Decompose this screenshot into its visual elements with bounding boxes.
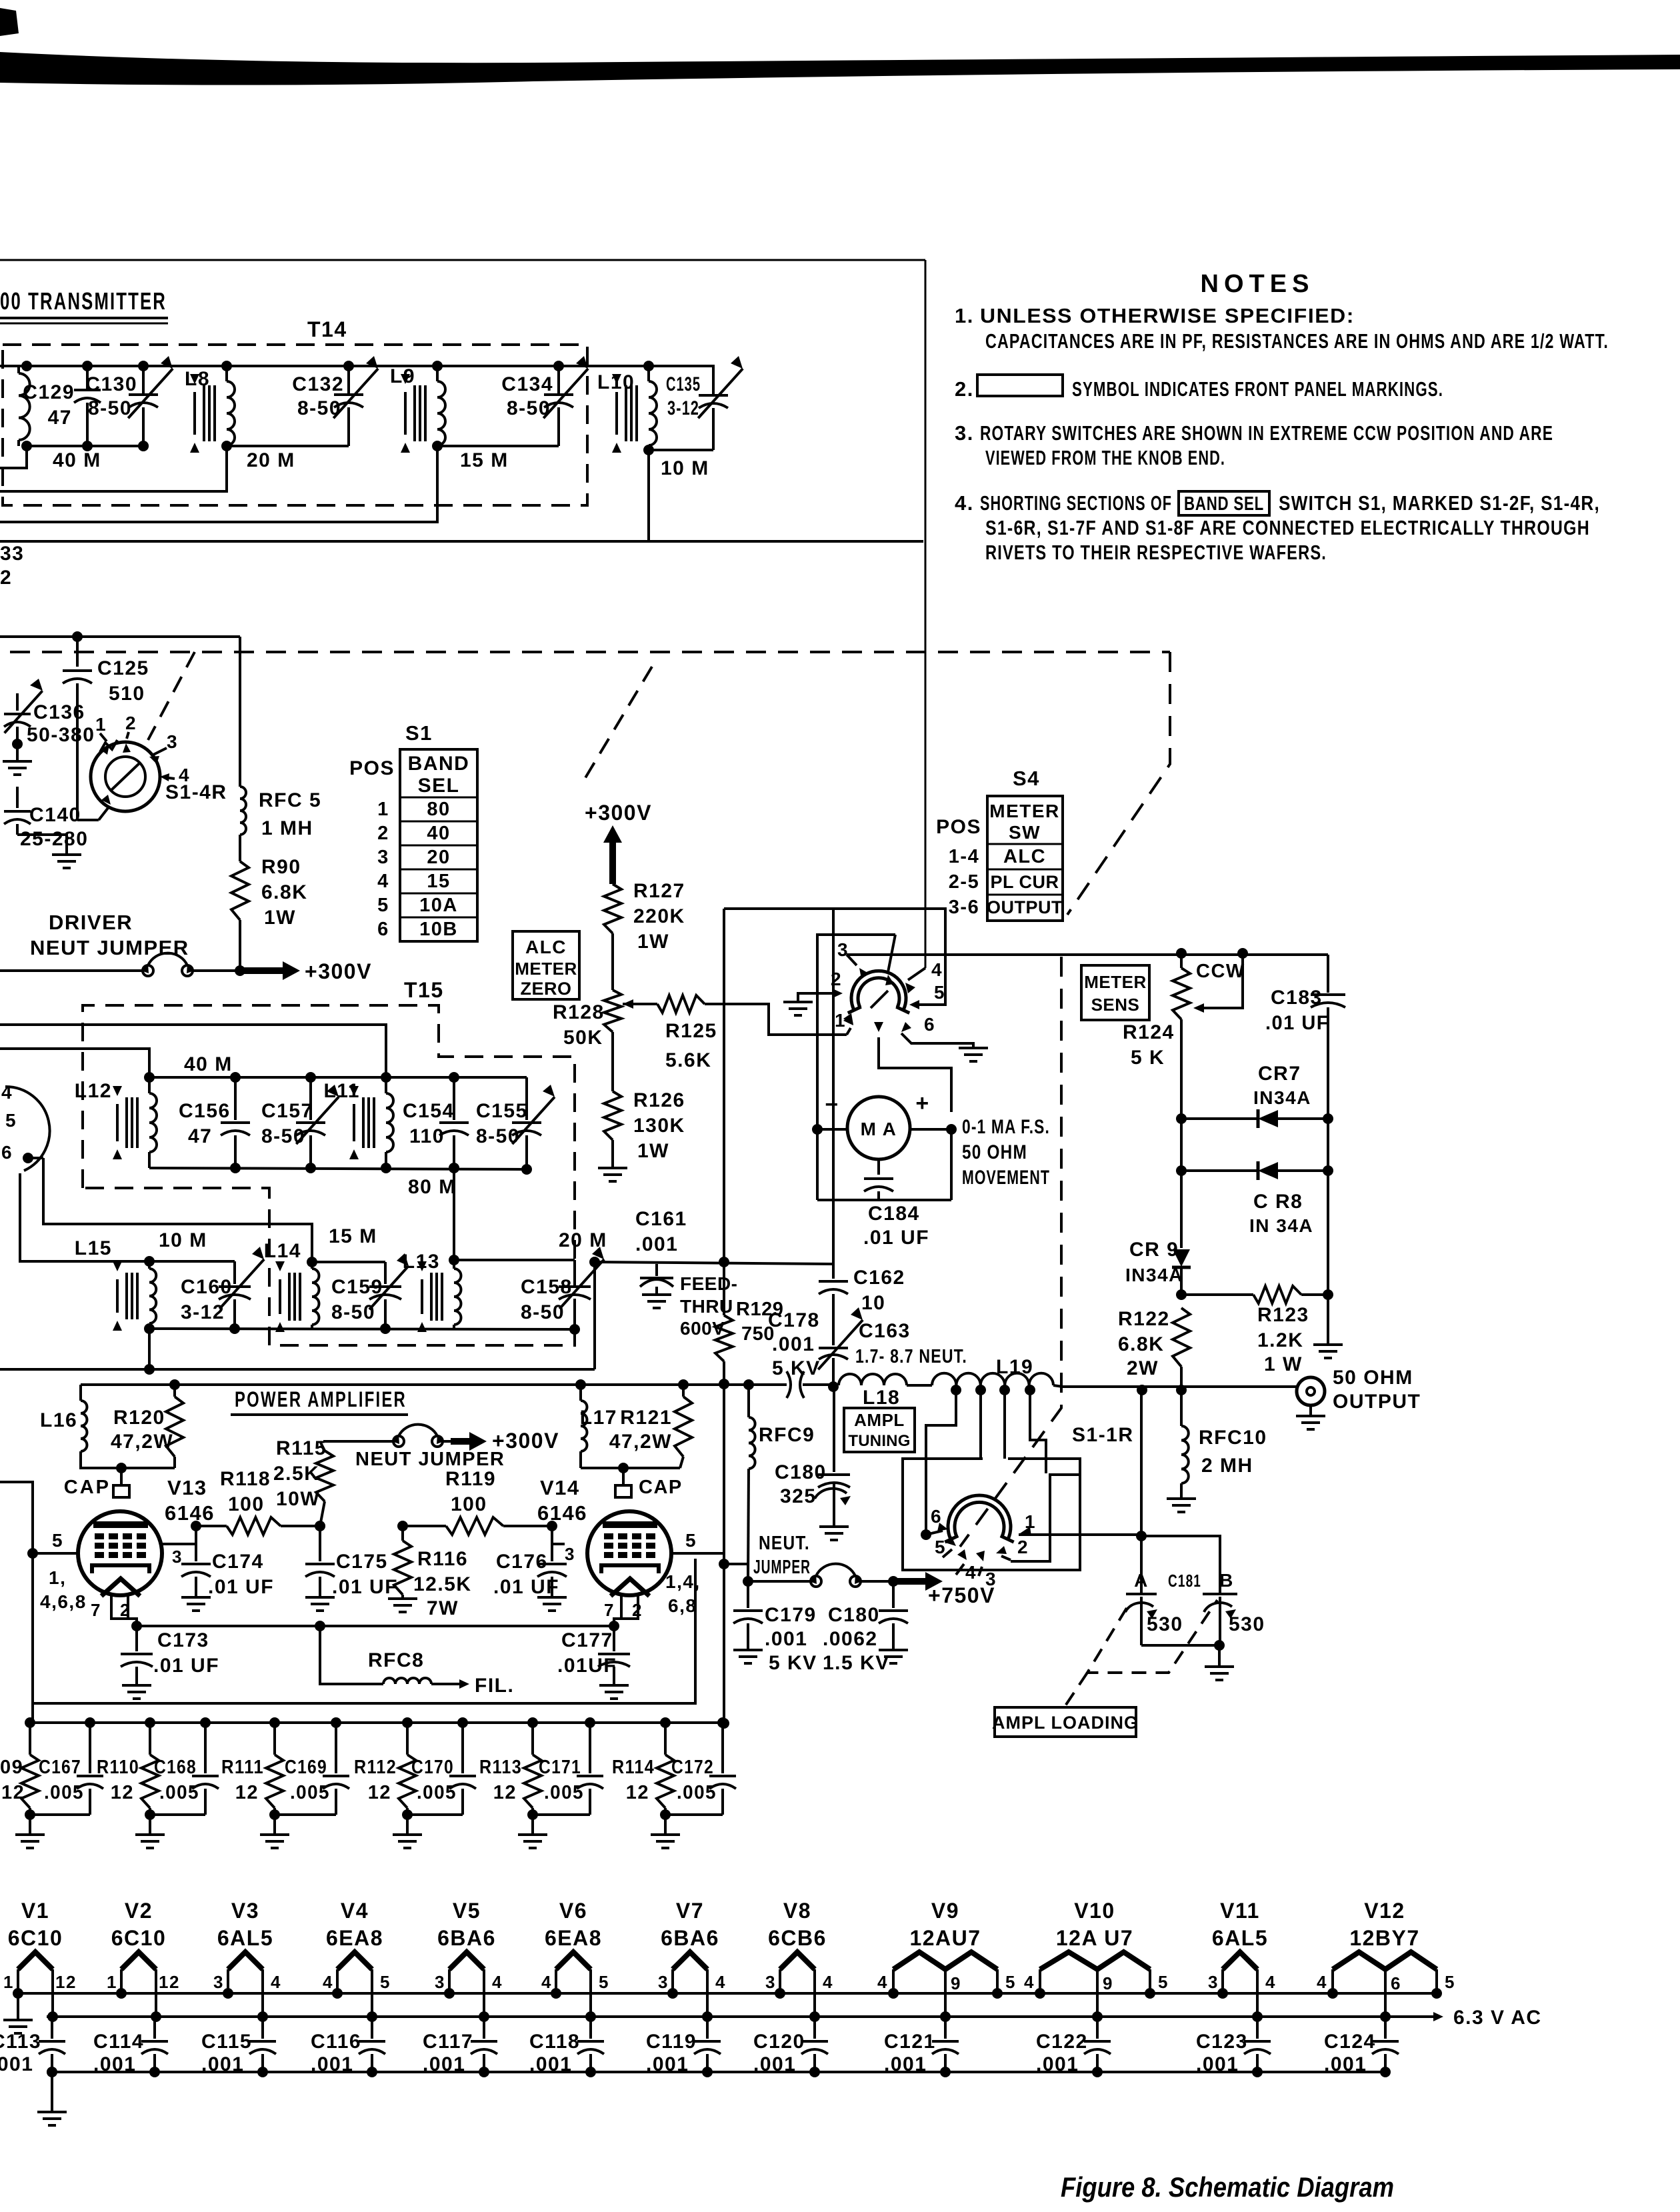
svg-text:40: 40 <box>427 823 450 844</box>
svg-text:L16: L16 <box>40 1409 77 1431</box>
svg-text:2-5: 2-5 <box>949 871 979 893</box>
svg-text:1W: 1W <box>264 907 296 929</box>
svg-text:12A U7: 12A U7 <box>1056 1926 1133 1950</box>
svg-text:C120: C120 <box>753 2031 805 2053</box>
wire into L11 <box>0 1025 386 1077</box>
capacitor C176 <box>547 1521 557 1531</box>
svg-text:V13: V13 <box>167 1476 207 1499</box>
svg-text:.001: .001 <box>1196 2053 1239 2075</box>
wire rotor pos3 arrow <box>979 1567 982 1576</box>
capacitor C118 <box>589 2017 592 2039</box>
capacitor C167 <box>85 1717 95 1728</box>
resistor R113 <box>527 1717 538 1728</box>
wire 15M top rail <box>312 1261 385 1263</box>
svg-text:V2: V2 <box>125 1899 153 1923</box>
svg-text:.001: .001 <box>201 2053 244 2075</box>
wire 10M bottom rail <box>149 1329 575 1329</box>
wire rotor pos5 arrow <box>943 1549 952 1557</box>
wire L9 drop <box>0 446 437 522</box>
svg-text:+750V: +750V <box>928 1583 995 1607</box>
svg-text:CAPACITANCES ARE IN PF, RESIST: CAPACITANCES ARE IN PF, RESISTANCES ARE … <box>985 329 1609 353</box>
svg-text:6: 6 <box>1391 1973 1401 1993</box>
svg-text:2: 2 <box>0 567 12 589</box>
wire +750 feed vertical <box>723 1262 725 1315</box>
svg-text:4: 4 <box>492 1972 503 1992</box>
svg-text:C176: C176 <box>496 1551 548 1573</box>
svg-text:RFC10: RFC10 <box>1199 1427 1267 1449</box>
wire V14 pin5 corner <box>671 1552 695 1555</box>
svg-text:Figure 8. Schematic Diagr: Figure 8. Schematic Diagram <box>1061 2171 1394 2203</box>
node V14 top cap <box>618 1463 629 1473</box>
svg-text:.001: .001 <box>93 2053 136 2075</box>
resistor R127 <box>604 884 621 933</box>
svg-text:C117: C117 <box>423 2031 473 2053</box>
svg-text:.01UF: .01UF <box>557 1655 617 1677</box>
wire neut jumper V14 <box>724 1564 748 1581</box>
capacitor C136 variable <box>16 693 19 711</box>
wire pos2 jog <box>1011 1475 1080 1561</box>
svg-text:1 MH: 1 MH <box>261 817 313 839</box>
svg-text:110: 110 <box>409 1125 445 1147</box>
svg-text:C116: C116 <box>311 2031 361 2053</box>
wire tap4 <box>1030 1390 1046 1473</box>
svg-text:DRIVER: DRIVER <box>49 911 133 934</box>
svg-text:25-280: 25-280 <box>20 828 88 850</box>
svg-text:C170: C170 <box>411 1757 454 1778</box>
svg-text:50 OHM: 50 OHM <box>962 1141 1027 1163</box>
svg-text:6C10: 6C10 <box>111 1926 167 1950</box>
jumper neut 750 <box>748 1580 811 1583</box>
resistor R116 <box>397 1521 408 1531</box>
svg-text:S1-1R: S1-1R <box>1072 1424 1134 1446</box>
wire 20M top rail <box>454 1259 575 1261</box>
capacitor C180 tune <box>833 1387 835 1472</box>
svg-text:OUTPUT: OUTPUT <box>1333 1391 1421 1413</box>
wire into L15 staircase <box>20 1173 149 1261</box>
svg-text:2: 2 <box>377 823 389 844</box>
inductor RFC10 <box>1180 1390 1183 1426</box>
svg-text:6.8K: 6.8K <box>261 881 307 903</box>
svg-text:3: 3 <box>658 1972 669 1992</box>
capacitor C175 <box>315 1521 325 1531</box>
svg-text:SEL: SEL <box>418 775 460 797</box>
svg-text:7W: 7W <box>427 1597 459 1619</box>
svg-text:POS: POS <box>936 816 981 838</box>
svg-text:L19: L19 <box>996 1356 1033 1378</box>
connector 50 ohm output <box>1297 1377 1325 1405</box>
svg-text:CR 9: CR 9 <box>1129 1239 1179 1261</box>
switch S1-2F partial <box>5 1087 50 1171</box>
label METER SENS <box>1081 965 1149 1020</box>
svg-text:5: 5 <box>1445 1972 1455 1992</box>
wire R110 bottom <box>150 1813 205 1816</box>
svg-text:T14: T14 <box>307 317 347 341</box>
svg-text:5 KV: 5 KV <box>772 1357 821 1379</box>
svg-text:.001: .001 <box>765 1628 807 1650</box>
svg-text:S1-6R, S1-7F AND S1-8F ARE CON: S1-6R, S1-7F AND S1-8F ARE CONNECTED ELE… <box>985 516 1590 539</box>
resistor R110 <box>145 1717 155 1728</box>
transformer T14 dashed box <box>3 345 587 505</box>
capacitor C177 <box>613 1626 615 1651</box>
wire heater bus 3 <box>52 2071 1385 2073</box>
svg-text:RFC 5: RFC 5 <box>259 789 321 811</box>
wire tap3 <box>1003 1390 1006 1459</box>
svg-text:C115: C115 <box>201 2031 252 2053</box>
diode CR8 <box>1180 1119 1183 1171</box>
capacitor C154 <box>453 1077 455 1120</box>
svg-text:L8: L8 <box>185 368 210 390</box>
svg-text:3.: 3. <box>955 421 974 445</box>
svg-text:C184: C184 <box>868 1203 920 1225</box>
svg-text:C168: C168 <box>154 1757 197 1778</box>
svg-text:R125: R125 <box>665 1020 717 1042</box>
svg-text:1W: 1W <box>637 1140 669 1162</box>
svg-text:IN 34A: IN 34A <box>1249 1215 1313 1236</box>
rotary switch S4 <box>851 971 906 1010</box>
svg-text:4: 4 <box>377 871 389 892</box>
svg-text:6,8: 6,8 <box>668 1595 697 1616</box>
diode CR7 <box>1176 1113 1187 1124</box>
svg-text:6.3 V AC: 6.3 V AC <box>1453 2007 1542 2029</box>
svg-text:8-50: 8-50 <box>521 1301 565 1323</box>
svg-text:TUNING: TUNING <box>848 1432 910 1450</box>
svg-text:4: 4 <box>877 1972 888 1992</box>
capacitor C117 <box>483 2017 485 2039</box>
svg-text:CR7: CR7 <box>1258 1063 1301 1085</box>
svg-text:80 M: 80 M <box>408 1176 457 1198</box>
svg-text:C132: C132 <box>292 373 344 395</box>
svg-text:V4: V4 <box>341 1899 369 1923</box>
wire S4 box left <box>817 935 895 1129</box>
potentiometer R128 <box>611 933 614 990</box>
svg-text:.005: .005 <box>417 1782 457 1803</box>
svg-text:1.7- 8.7 NEUT.: 1.7- 8.7 NEUT. <box>855 1346 967 1367</box>
svg-text:2W: 2W <box>1127 1357 1159 1379</box>
svg-text:R123: R123 <box>1257 1304 1309 1326</box>
wire L19 to R122 <box>1053 1385 1063 1387</box>
svg-text:2: 2 <box>1017 1537 1029 1557</box>
svg-text:M A: M A <box>861 1119 897 1139</box>
svg-text:100: 100 <box>451 1493 487 1515</box>
svg-text:C129: C129 <box>23 381 75 403</box>
svg-text:JUMPER: JUMPER <box>753 1557 811 1578</box>
ground C140 <box>17 835 67 855</box>
svg-text:80: 80 <box>427 799 450 820</box>
switch box S1-1R <box>903 1459 1080 1570</box>
ground R113 <box>531 1815 534 1835</box>
svg-text:.01 UF: .01 UF <box>1265 1012 1329 1034</box>
svg-text:6: 6 <box>1 1142 13 1163</box>
svg-text:NOTES: NOTES <box>1201 270 1315 298</box>
wire C181A feed <box>1140 1390 1143 1536</box>
svg-text:L15: L15 <box>75 1237 112 1259</box>
svg-text:C118: C118 <box>529 2031 580 2053</box>
node +750V <box>888 1576 899 1587</box>
svg-text:220K: 220K <box>633 905 685 927</box>
svg-text:FIL.: FIL. <box>475 1675 514 1697</box>
wire PA box bottom <box>33 1559 695 1703</box>
svg-text:R115: R115 <box>276 1437 327 1459</box>
inductor L13 <box>453 1168 455 1260</box>
ground R111 <box>273 1815 276 1835</box>
svg-text:6.8K: 6.8K <box>1118 1333 1164 1355</box>
wire 10M top rail <box>149 1260 235 1263</box>
capacitor C134 variable <box>553 361 564 371</box>
svg-text:C180: C180 <box>828 1604 880 1626</box>
capacitor C160 variable <box>233 1261 236 1284</box>
svg-text:12.5K: 12.5K <box>413 1573 472 1595</box>
svg-text:6146: 6146 <box>165 1501 215 1525</box>
svg-text:6146: 6146 <box>537 1501 587 1525</box>
wire S4 pos2 ground <box>798 993 837 1002</box>
inductor RFC9 <box>743 1379 754 1390</box>
svg-text:10A: 10A <box>419 895 458 916</box>
dashed diagonal to S1-4R <box>148 652 195 740</box>
wire plate line B <box>81 1383 787 1386</box>
svg-text:6AL5: 6AL5 <box>1212 1926 1268 1950</box>
svg-text:C119: C119 <box>646 2031 697 2053</box>
svg-text:C169: C169 <box>285 1757 327 1778</box>
capacitor C122 <box>1096 2017 1099 2039</box>
resistor R114 <box>660 1717 671 1728</box>
svg-text:V12: V12 <box>1364 1899 1405 1923</box>
svg-text:50 OHM: 50 OHM <box>1333 1367 1413 1389</box>
svg-text:3: 3 <box>435 1972 445 1992</box>
jumper driver <box>0 969 143 972</box>
wire V13 cathode <box>111 1595 137 1626</box>
ground RFC10 <box>1167 1497 1196 1500</box>
transformer T15 dashed outline <box>83 1005 575 1345</box>
svg-text:4: 4 <box>271 1972 281 1992</box>
capacitor C155 variable <box>525 1077 528 1120</box>
capacitor C114 <box>153 2017 156 2039</box>
ground R126 <box>598 1167 627 1169</box>
svg-text:L12: L12 <box>75 1080 112 1102</box>
wire heater bus 1 <box>18 1992 1437 1995</box>
svg-text:3: 3 <box>172 1547 183 1567</box>
tube V13 6146 <box>78 1511 162 1595</box>
svg-text:C178: C178 <box>768 1309 820 1331</box>
svg-text:B: B <box>1219 1570 1234 1591</box>
wire heater bus 2 <box>47 2015 1435 2018</box>
svg-text:12: 12 <box>235 1782 259 1803</box>
svg-text:C114: C114 <box>93 2031 144 2053</box>
wire S4 pos5 feed <box>832 909 835 1264</box>
svg-text:S1-4R: S1-4R <box>165 781 227 803</box>
svg-text:C175: C175 <box>336 1551 388 1573</box>
wire L8 drop <box>0 446 227 491</box>
wire 15M bottom rail <box>437 445 559 447</box>
capacitor C181 B variable <box>1203 1593 1237 1595</box>
capacitor C184 <box>816 1129 819 1200</box>
svg-text:4: 4 <box>541 1972 552 1992</box>
svg-text:10B: 10B <box>419 919 458 940</box>
wire S4 pos6 ground <box>901 1033 973 1048</box>
label ALC METER ZERO <box>513 931 579 999</box>
svg-text:SWITCH S1, MARKED S1-2F, S1-4R: SWITCH S1, MARKED S1-2F, S1-4R, <box>1279 491 1600 515</box>
resistor R119 <box>446 1517 503 1535</box>
svg-text:C123: C123 <box>1196 2031 1248 2053</box>
svg-text:C155: C155 <box>476 1100 528 1122</box>
svg-text:.001: .001 <box>311 2053 353 2075</box>
svg-text:C140: C140 <box>29 804 81 826</box>
wire cathode rail <box>137 1625 614 1627</box>
svg-text:C161: C161 <box>635 1208 687 1230</box>
svg-text:C113: C113 <box>0 2031 41 2053</box>
svg-text:C174: C174 <box>212 1551 264 1573</box>
wire C161 link <box>595 1262 833 1264</box>
node +300V driver <box>235 965 245 976</box>
svg-text:100: 100 <box>228 1493 265 1515</box>
wire rotor pos2 arrow <box>1001 1556 1011 1560</box>
dashed boundary S1 main <box>10 651 1170 653</box>
wire S1-4R wiper to C125 <box>77 819 99 821</box>
svg-text:.005: .005 <box>544 1782 584 1803</box>
svg-text:C183: C183 <box>1271 987 1323 1009</box>
svg-text:R90: R90 <box>261 856 301 878</box>
svg-text:V14: V14 <box>540 1476 580 1499</box>
svg-text:530: 530 <box>1229 1613 1265 1635</box>
node 6.3V AC <box>1433 2012 1443 2021</box>
dashed links AMPL LOADING <box>1087 1600 1217 1673</box>
svg-text:C163: C163 <box>859 1320 911 1342</box>
svg-text:C167: C167 <box>39 1757 81 1778</box>
svg-text:NEUT JUMPER: NEUT JUMPER <box>355 1449 505 1470</box>
jumper neut PA <box>323 1440 393 1443</box>
svg-text:CAP: CAP <box>64 1477 111 1498</box>
svg-text:1,: 1, <box>49 1567 66 1588</box>
svg-text:6: 6 <box>924 1014 935 1035</box>
svg-text:4: 4 <box>1024 1972 1035 1992</box>
wire meter plus <box>910 1128 951 1131</box>
svg-text:10: 10 <box>861 1292 885 1314</box>
svg-text:ALC: ALC <box>525 937 567 957</box>
svg-text:.001: .001 <box>753 2053 796 2075</box>
capacitor C125 <box>76 637 79 667</box>
wire tap1 <box>926 1390 956 1535</box>
wire 10M bottom rail <box>649 449 713 451</box>
svg-text:L18: L18 <box>863 1387 900 1409</box>
node L19 taps <box>951 1385 961 1395</box>
svg-text:12: 12 <box>368 1782 391 1803</box>
svg-text:V6: V6 <box>559 1899 587 1923</box>
resistor R109 <box>25 1717 35 1728</box>
svg-text:C R8: C R8 <box>1253 1191 1303 1213</box>
wire rotor pos4 arrow <box>956 1564 964 1575</box>
svg-text:4: 4 <box>1 1082 13 1103</box>
svg-text:.005: .005 <box>677 1782 717 1803</box>
wire C181 top link <box>1141 1536 1220 1593</box>
svg-text:.001: .001 <box>635 1233 678 1255</box>
svg-text:10 M: 10 M <box>159 1229 207 1251</box>
capacitor C124 <box>1384 2017 1387 2039</box>
wire rotor pos1 long <box>1019 1533 1141 1536</box>
svg-text:.001: .001 <box>772 1333 815 1355</box>
wire +750 feed upper vertical <box>723 909 725 1262</box>
svg-text:METER: METER <box>515 959 577 979</box>
svg-text:4: 4 <box>823 1972 833 1992</box>
svg-text:1.2K: 1.2K <box>1257 1329 1303 1351</box>
svg-text:.005: .005 <box>44 1782 84 1803</box>
wire S4 pos1 arrow <box>843 1015 853 1025</box>
ground V1 pin1 <box>17 1993 19 2020</box>
capacitor C116 <box>371 2017 373 2039</box>
resistor R121 <box>678 1379 689 1390</box>
svg-text:6EA8: 6EA8 <box>545 1926 602 1950</box>
wire C181 bottom <box>1141 1644 1220 1647</box>
wire PA grid left entry <box>0 1482 33 1723</box>
svg-text:8-50: 8-50 <box>297 397 341 419</box>
svg-text:C181: C181 <box>1168 1571 1201 1591</box>
svg-text:50-380: 50-380 <box>27 724 95 746</box>
svg-text:8-50: 8-50 <box>476 1125 520 1147</box>
svg-text:A: A <box>1134 1570 1149 1591</box>
capacitor C163 variable <box>819 1347 848 1349</box>
svg-text:+300V: +300V <box>585 801 652 825</box>
svg-text:METER: METER <box>989 801 1060 821</box>
svg-text:5: 5 <box>377 895 389 916</box>
resistor R120 <box>169 1379 180 1390</box>
resistor R126 <box>604 1091 621 1140</box>
wire S4 pole diagonal <box>888 935 895 972</box>
svg-text:METER: METER <box>1084 972 1147 992</box>
svg-text:0-1 MA F.S.: 0-1 MA F.S. <box>962 1116 1050 1138</box>
capacitor C135 variable <box>649 366 713 395</box>
wire V13 pin5 <box>27 1548 38 1559</box>
ground R112 <box>406 1815 409 1835</box>
svg-text:PL CUR: PL CUR <box>990 872 1059 892</box>
svg-text:7: 7 <box>604 1600 615 1620</box>
wire 40M bottom rail <box>27 445 143 447</box>
ground heater bus <box>47 2067 57 2077</box>
svg-text:09: 09 <box>0 1757 23 1778</box>
svg-text:530: 530 <box>1147 1613 1183 1635</box>
svg-text:20: 20 <box>427 847 450 868</box>
resistor R129 <box>719 1257 729 1267</box>
wire rotor pos6 arrow <box>926 1531 943 1535</box>
svg-text:C124: C124 <box>1324 2031 1376 2053</box>
capacitor C115 <box>261 2017 264 2039</box>
svg-text:R110: R110 <box>97 1757 139 1778</box>
capacitor C170 <box>457 1717 468 1728</box>
svg-text:R128: R128 <box>553 1001 605 1023</box>
wire screen bus <box>33 1721 724 1724</box>
svg-text:5 K: 5 K <box>1131 1047 1165 1069</box>
svg-text:6EA8: 6EA8 <box>326 1926 383 1950</box>
svg-text:R119: R119 <box>445 1468 496 1490</box>
rotary switch S1-1R <box>948 1495 1011 1539</box>
svg-text:R118: R118 <box>220 1468 271 1490</box>
wire 20M bottom rail <box>227 445 349 447</box>
wire S4 pole from frame <box>908 968 925 980</box>
svg-text:SHORTING SECTIONS OF: SHORTING SECTIONS OF <box>980 491 1172 515</box>
svg-text:2.: 2. <box>955 377 974 401</box>
svg-text:12AU7: 12AU7 <box>909 1926 981 1950</box>
svg-text:RFC8: RFC8 <box>368 1649 424 1671</box>
svg-text:12BY7: 12BY7 <box>1349 1926 1419 1950</box>
svg-text:.001: .001 <box>884 2053 927 2075</box>
svg-text:3: 3 <box>377 847 389 868</box>
svg-text:3-12: 3-12 <box>667 397 699 419</box>
svg-text:NEUT.: NEUT. <box>759 1533 810 1554</box>
svg-text:33: 33 <box>0 543 24 565</box>
svg-text:IN34A: IN34A <box>1253 1087 1311 1108</box>
svg-text:C159: C159 <box>331 1276 383 1298</box>
svg-text:S4: S4 <box>1013 767 1040 790</box>
capacitor C179 <box>747 1581 749 1608</box>
svg-text:8-50: 8-50 <box>507 397 551 419</box>
tube V14 6146 <box>587 1511 671 1595</box>
